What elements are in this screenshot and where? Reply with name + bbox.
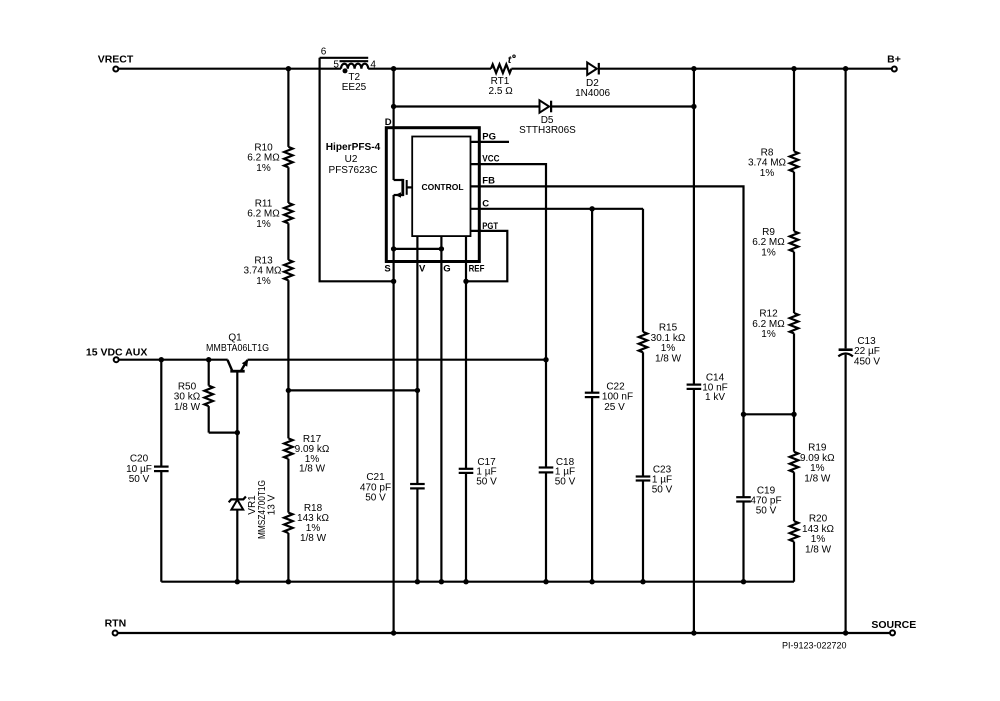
- svg-text:1/8 W: 1/8 W: [174, 402, 201, 413]
- wire R50 bottom to base node: [209, 432, 238, 434]
- wire FB run: [471, 186, 744, 497]
- wire AUX to Q1 collector: [119, 359, 228, 361]
- svg-text:50 V: 50 V: [756, 505, 777, 516]
- svg-text:4: 4: [370, 60, 376, 71]
- resistor R18 143 kohm: [284, 503, 329, 544]
- svg-text:50 V: 50 V: [652, 484, 673, 495]
- resistor RT1 thermistor 2.5 ohm: [489, 54, 516, 97]
- wire R20 to bus: [793, 542, 795, 582]
- wire R13 down to R17: [287, 280, 289, 438]
- wire divider chain top: [287, 69, 289, 147]
- svg-text:6: 6: [321, 46, 327, 57]
- svg-text:1%: 1%: [760, 168, 775, 179]
- svg-text:450 V: 450 V: [854, 356, 880, 367]
- svg-text:V: V: [419, 264, 426, 275]
- svg-text:G: G: [443, 264, 450, 275]
- U2 name labels: [326, 142, 381, 176]
- resistor R9 6.2 Mohm: [752, 227, 798, 259]
- svg-text:1%: 1%: [761, 247, 776, 258]
- svg-text:D: D: [385, 117, 392, 128]
- transistor internal MOSFET of U2: [394, 179, 413, 198]
- capacitor C20 10 uF: [126, 360, 168, 582]
- wire R9 to R12: [793, 252, 795, 313]
- resistor R8 3.74 Mohm: [748, 147, 798, 179]
- wire R17 to R18: [287, 459, 289, 513]
- svg-text:S: S: [384, 264, 390, 275]
- wire VRECT to T2: [118, 68, 341, 70]
- resistor R19 9.09 kohm: [790, 443, 835, 485]
- diode D5 STTH3R06S: [519, 100, 576, 136]
- resistor R13 3.74 Mohm: [243, 255, 292, 287]
- svg-text:R11: R11: [255, 198, 273, 209]
- svg-text:EE25: EE25: [342, 82, 367, 93]
- svg-text:50 V: 50 V: [555, 476, 576, 487]
- diode D2 1N4006: [575, 63, 610, 99]
- inductor T2 EE25: [320, 58, 369, 93]
- resistor R11 6.2 Mohm: [247, 198, 292, 230]
- zener diode VR1 MMSZ4700T1G 13 V: [229, 433, 278, 582]
- wire RT1 to D2: [511, 68, 587, 70]
- node SOURCE terminal: [871, 619, 916, 636]
- wire C run: [471, 208, 644, 210]
- svg-text:1%: 1%: [256, 276, 271, 287]
- svg-text:13 V: 13 V: [267, 494, 278, 515]
- svg-text:1%: 1%: [761, 329, 776, 340]
- wire D5 row from D pin node: [394, 105, 540, 107]
- wire FB tap link: [744, 413, 795, 415]
- node VRECT terminal: [98, 53, 134, 71]
- svg-text:1N4006: 1N4006: [575, 88, 610, 99]
- svg-text:PFS7623C: PFS7623C: [329, 165, 378, 176]
- capacitor C21 470 pF on V pin: [360, 472, 425, 582]
- capacitor C13 22 uF 450 V polarized: [838, 69, 880, 633]
- wire RTN rail: [118, 632, 890, 634]
- capacitor C17 1 uF on REF pin: [459, 457, 497, 582]
- svg-text:R13: R13: [254, 255, 273, 266]
- svg-text:1/8 W: 1/8 W: [299, 464, 326, 475]
- wire Q1 base lead: [236, 371, 238, 432]
- transistor Q1 MMBTA06LT1G: [206, 332, 269, 371]
- wire R19 to R20: [793, 472, 795, 521]
- capacitor C18 1 uF on VCC: [539, 457, 576, 582]
- node 15 VDC AUX terminal: [86, 346, 147, 362]
- wire signal ground bus: [161, 581, 794, 583]
- wire S pin lead down to RTN: [393, 195, 395, 633]
- svg-text:6.2 MΩ: 6.2 MΩ: [247, 153, 280, 164]
- svg-text:1/8 W: 1/8 W: [805, 544, 832, 555]
- svg-text:1/8 W: 1/8 W: [655, 353, 682, 364]
- T2 phasing dot: [343, 68, 348, 73]
- svg-text:50 V: 50 V: [129, 474, 150, 485]
- svg-text:Q1: Q1: [228, 332, 242, 343]
- resistor R12 6.2 Mohm: [752, 309, 798, 341]
- svg-text:2.5 Ω: 2.5 Ω: [489, 86, 514, 97]
- capacitor C19 470 pF: [736, 485, 781, 581]
- svg-text:C: C: [482, 198, 489, 209]
- wire R8 to R9: [793, 172, 795, 232]
- wire T2 pin 6 down to S node: [320, 58, 394, 281]
- wire divider tap to V pin: [288, 389, 417, 391]
- capacitor C22 100 nF on C pin: [585, 209, 633, 582]
- svg-text:50 V: 50 V: [476, 476, 497, 487]
- resistor R10 6.2 Mohm: [247, 142, 292, 174]
- svg-text:STTH3R06S: STTH3R06S: [519, 125, 576, 136]
- svg-text:1%: 1%: [256, 163, 271, 174]
- node B+ terminal: [887, 54, 901, 72]
- resistor R15 30.1 kohm on C pin: [639, 209, 686, 365]
- svg-text:1/8 W: 1/8 W: [804, 473, 831, 484]
- svg-text:U2: U2: [345, 154, 358, 165]
- svg-text:1 kV: 1 kV: [705, 392, 725, 403]
- resistor R20 143 kohm: [790, 514, 835, 556]
- wire R10 to R11: [287, 167, 289, 203]
- wire VCC run: [471, 164, 547, 467]
- svg-text:t: t: [508, 54, 512, 66]
- svg-text:1%: 1%: [256, 219, 271, 230]
- wire D5 to B+ node: [551, 105, 694, 107]
- svg-text:HiperPFS-4: HiperPFS-4: [326, 142, 381, 153]
- svg-text:B+: B+: [887, 54, 901, 66]
- svg-text:FB: FB: [482, 176, 495, 187]
- svg-text:6.2 MΩ: 6.2 MΩ: [247, 209, 280, 220]
- svg-text:15 VDC AUX: 15 VDC AUX: [86, 346, 147, 358]
- capacitor C23 1 uF: [636, 352, 673, 581]
- svg-text:R10: R10: [254, 142, 273, 153]
- svg-text:3.74 MΩ: 3.74 MΩ: [243, 266, 282, 277]
- U2 CONTROL inner box: [412, 137, 470, 237]
- node junction dots: [159, 66, 849, 636]
- wire R18 to ground bus: [287, 533, 289, 582]
- resistor R50 30 kohm: [174, 360, 213, 433]
- wire R12 to R19 with FB tap: [793, 333, 795, 451]
- wire V pin lead: [416, 236, 418, 484]
- svg-text:REF: REF: [469, 264, 485, 275]
- svg-text:25 V: 25 V: [604, 402, 625, 413]
- wire G pin lead: [440, 236, 442, 582]
- wire REF pin lead: [465, 236, 467, 469]
- wire Q1 emitter to VCC node: [248, 359, 547, 361]
- svg-text:1/8 W: 1/8 W: [300, 533, 327, 544]
- wire D pin lead: [393, 69, 395, 180]
- svg-text:VRECT: VRECT: [98, 53, 134, 65]
- op-amp U2 HiperPFS-4 PFS7623C outer box: [386, 128, 479, 262]
- wire T2 to RT1: [368, 68, 491, 70]
- svg-text:5: 5: [333, 60, 339, 71]
- svg-text:CONTROL: CONTROL: [421, 182, 463, 192]
- svg-text:50 V: 50 V: [365, 493, 386, 504]
- wire B+ to R8: [793, 69, 795, 152]
- svg-text:RTN: RTN: [105, 618, 127, 630]
- wire R11 to R13: [287, 223, 289, 260]
- node RTN terminal: [105, 618, 127, 636]
- svg-text:MMBTA06LT1G: MMBTA06LT1G: [206, 343, 269, 354]
- wire PGT to REF loop: [466, 231, 507, 281]
- wire internal S to G link: [394, 248, 442, 250]
- svg-text:PI-9123-022720: PI-9123-022720: [782, 641, 847, 651]
- resistor R17 9.09 kohm: [284, 434, 330, 475]
- wire PG stub: [471, 141, 510, 143]
- svg-text:SOURCE: SOURCE: [871, 619, 916, 631]
- wire D2 to B+: [599, 68, 892, 70]
- capacitor C14 10 nF 1 kV: [687, 69, 728, 633]
